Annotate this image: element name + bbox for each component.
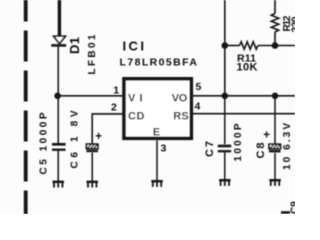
node: VO rail / C7 junction: [222, 93, 229, 100]
wire: C8 to ground: [274, 153, 276, 180]
svg-text:L78LR05BFA: L78LR05BFA: [120, 57, 198, 69]
wire: IC1 pin 2 to C6: [92, 114, 122, 144]
svg-text:220: 220: [291, 16, 295, 32]
svg-text:C9: C9: [290, 201, 296, 214]
svg-text:4: 4: [195, 100, 201, 112]
wire: VO rail junction down to C7: [224, 96, 226, 144]
node: R11 left / rail junction: [222, 42, 229, 49]
diode D1: [51, 36, 66, 45]
ground (C8): [269, 180, 281, 186]
svg-text:VO: VO: [172, 92, 188, 104]
wire: vertical rail from top edge to R11 left node: [224, 0, 226, 46]
resistor R12: [271, 0, 278, 46]
ground (C7): [219, 180, 231, 186]
svg-text:+: +: [263, 130, 270, 142]
wire: IC1 pin 3 (E) to ground: [156, 141, 158, 181]
svg-text:ICI: ICI: [123, 39, 145, 54]
svg-text:2: 2: [111, 102, 117, 114]
wire: C6 to ground: [91, 153, 93, 181]
svg-text:VI: VI: [128, 92, 143, 104]
wire: input node to IC1 pin 1: [58, 95, 123, 97]
svg-text:10K: 10K: [237, 62, 258, 74]
wire: D1 cathode down to input node: [57, 45, 59, 96]
resistor R11: [225, 42, 275, 49]
ground (E pin): [151, 181, 163, 187]
svg-text:RS: RS: [173, 110, 189, 122]
op-amp/regulator IC1 box: [124, 79, 191, 139]
wire: R11 right node to right edge: [275, 45, 295, 47]
board edge dashed line: [24, 0, 28, 214]
wire: VO rail junction down to C8: [274, 96, 276, 144]
svg-text:5: 5: [196, 81, 202, 93]
svg-text:1: 1: [113, 85, 119, 97]
node: input junction: [54, 93, 61, 100]
svg-text:E: E: [153, 126, 160, 138]
node: VO rail / C8 junction: [272, 93, 279, 100]
wire: IC1 pin 5 (VO) output rail to right edge: [193, 95, 295, 97]
svg-text:10 6.3V: 10 6.3V: [282, 123, 293, 170]
ground (C5): [53, 182, 65, 188]
svg-text:D1: D1: [67, 37, 82, 54]
svg-text:3: 3: [161, 143, 167, 155]
capacitor C6 (electrolytic): [86, 144, 98, 151]
capacitor C5: [52, 144, 66, 149]
wire fragment at bottom right corner: [281, 211, 290, 214]
svg-text:CD: CD: [128, 110, 145, 122]
ground (C6): [87, 182, 99, 188]
svg-text:+: +: [95, 131, 102, 143]
svg-text:LFB01: LFB01: [87, 34, 98, 74]
wire: input node down to C5: [57, 96, 59, 144]
wire: C5 to ground: [57, 151, 59, 181]
wire: supply input from top to D1 anode: [58, 0, 61, 36]
capacitor C8 (electrolytic): [269, 144, 281, 151]
wire: C7 to ground: [224, 152, 226, 179]
wire: rail junction down to VO rail: [224, 46, 226, 96]
wire: IC1 pin 4 (RS) to right edge: [193, 113, 295, 115]
node: R11 right / R12 junction: [272, 42, 279, 49]
capacitor C7: [218, 146, 231, 151]
